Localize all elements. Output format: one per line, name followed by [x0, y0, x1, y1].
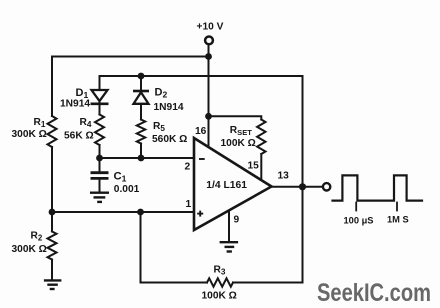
svg-text:100 μS: 100 μS	[344, 216, 374, 226]
svg-text:1N914: 1N914	[154, 102, 184, 113]
svg-text:13: 13	[278, 171, 290, 182]
svg-text:1N914: 1N914	[60, 99, 90, 110]
svg-text:SeekIC.com: SeekIC.com	[317, 279, 431, 307]
svg-text:D2: D2	[155, 87, 168, 100]
svg-text:560K Ω: 560K Ω	[152, 134, 187, 145]
svg-text:2: 2	[185, 162, 191, 173]
svg-text:1/4 L161: 1/4 L161	[206, 180, 247, 191]
svg-text:15: 15	[248, 161, 260, 172]
svg-text:1M S: 1M S	[387, 215, 409, 225]
svg-text:16: 16	[195, 126, 207, 137]
svg-text:+10 V: +10 V	[197, 22, 224, 33]
svg-text:C1: C1	[114, 171, 127, 184]
svg-text:300K Ω: 300K Ω	[12, 129, 47, 140]
svg-text:56K Ω: 56K Ω	[64, 131, 94, 142]
svg-text:300K Ω: 300K Ω	[12, 244, 47, 255]
svg-text:0.001: 0.001	[114, 184, 140, 195]
svg-text:1: 1	[186, 199, 192, 210]
svg-text:100K Ω: 100K Ω	[221, 138, 256, 149]
svg-text:100K Ω: 100K Ω	[202, 291, 237, 302]
svg-text:9: 9	[234, 215, 240, 226]
